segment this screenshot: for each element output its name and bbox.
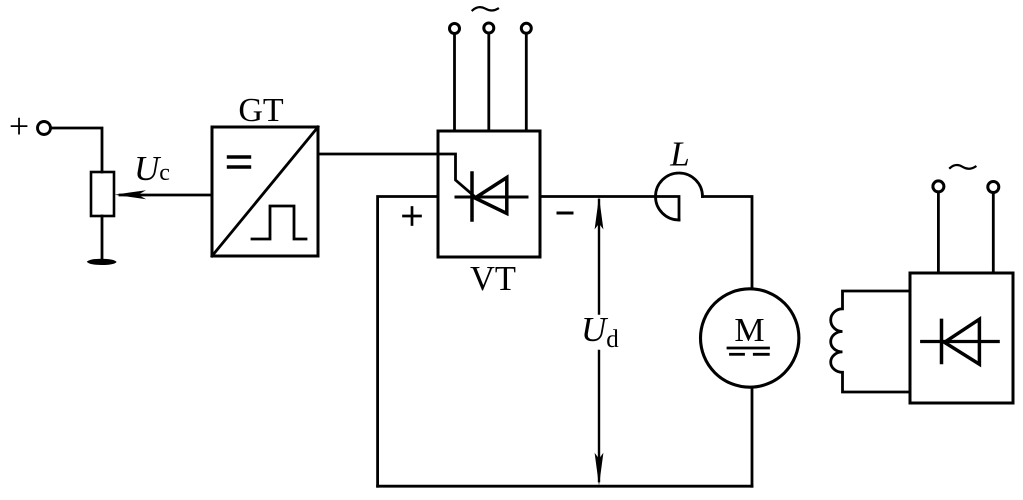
svg-text:L: L	[669, 135, 689, 174]
trigger block GT equals symbol	[229, 155, 250, 158]
svg-text:VT: VT	[470, 260, 516, 298]
motor M circle	[701, 289, 799, 387]
trigger block GT box	[212, 127, 318, 256]
wire inductor to motor	[703, 197, 753, 289]
wire motor to bottom rail	[751, 388, 754, 486]
field winding coil	[831, 291, 910, 392]
wire field b to rectifier	[992, 193, 995, 273]
ground	[87, 259, 117, 265]
label plus node	[404, 215, 421, 218]
rectifier block VT box	[438, 131, 540, 257]
wire terminal to potentiometer top	[51, 128, 102, 172]
potentiometer RP	[91, 172, 114, 216]
tilde three-phase source	[473, 7, 499, 10]
thyristor field line	[922, 340, 999, 343]
wire potentiometer bottom to ground	[101, 216, 104, 259]
thyristor field cathode bar	[940, 320, 944, 362]
wire VT minus output to inductor	[540, 197, 679, 221]
field rectifier box	[910, 273, 1013, 403]
thyristor field triangle	[945, 319, 980, 364]
wire wiper arrow from GT to potentiometer	[120, 194, 212, 197]
trigger block GT pulse symbol	[252, 206, 306, 239]
wire bottom rail	[378, 485, 752, 488]
measurement arrow Ud	[598, 200, 600, 314]
inductor L	[656, 173, 703, 220]
wire phase c to VT	[525, 34, 528, 131]
wire GT output to VT gate	[318, 154, 474, 196]
trigger block GT diagonal	[212, 127, 318, 256]
thyristor VT triangle	[475, 178, 507, 214]
wire phase b to VT	[487, 34, 490, 132]
wire field a to rectifier	[937, 193, 940, 274]
tilde field source	[950, 165, 976, 169]
svg-text:Ud: Ud	[581, 310, 619, 353]
svg-text:Uc: Uc	[134, 149, 170, 188]
svg-text:M: M	[734, 312, 764, 349]
terminal phase a	[450, 24, 460, 34]
terminal field b	[988, 182, 999, 193]
thyristor VT cathode bar	[470, 173, 474, 220]
terminal field a	[933, 181, 944, 192]
label minus node	[558, 212, 572, 215]
svg-text:GT: GT	[238, 92, 284, 129]
svg-text:+: +	[9, 106, 29, 146]
terminal phase b	[484, 23, 494, 33]
thyristor VT line	[456, 196, 527, 199]
terminal phase c	[521, 23, 531, 33]
wire phase a to VT	[453, 34, 456, 131]
wire VT plus output down to bottom rail	[378, 197, 438, 487]
terminal input circle	[38, 122, 51, 135]
